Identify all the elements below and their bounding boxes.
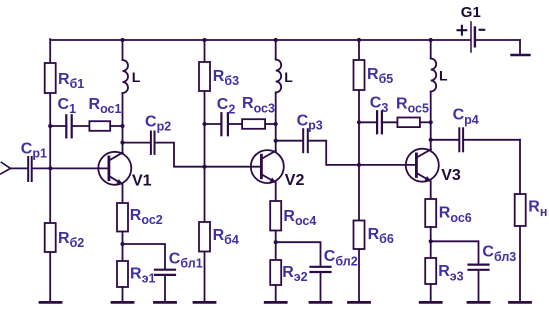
svg-text:Rос5: Rос5 [396,95,429,115]
wire C&#1073;л2 to ground [320,273,322,301]
wire top supply rail left section [50,39,470,41]
svg-text:Rн: Rн [528,199,547,219]
capacitor C1 [58,96,77,138]
node stage1 collector Cp2 tap [120,141,124,145]
ground (C&#1073;л1) [155,301,176,304]
svg-text:Rб3: Rб3 [213,68,239,88]
wire V2 emitter lead [275,183,277,202]
wire feedback row to C2 [205,123,221,125]
inductor L (stage1) [123,40,141,126]
node stage3 emitter junction [429,239,433,243]
resistor Roc1 [89,96,122,131]
resistor Roc2 [117,203,163,232]
svg-text:Rос4: Rос4 [283,208,316,228]
node stage2 feedback row left [202,122,206,126]
node stage1 rail junction [120,38,124,42]
wire V1 base lead [50,167,109,169]
wire feedback row to C1 [50,125,65,127]
wire battery to ground [519,40,521,54]
svg-text:Rб1: Rб1 [58,71,84,91]
resistor R&#1073;2 [45,223,85,252]
capacitor C&#1073;л3 [469,244,517,270]
transistor V3 [406,149,461,185]
node stage2 rail junction [274,38,278,42]
ground (R&#1073;4) [194,301,215,304]
wire feedback row to C3 [359,121,376,123]
wire Roc3 to collector column [265,123,276,125]
wire Roc6 to Rэ3 [430,227,432,258]
node stage3 collector Cp4 tap [429,138,433,142]
svg-text:Rос2: Rос2 [130,207,163,227]
wire C2 to Roc3 [229,123,242,125]
node stage2 base junction [202,165,206,169]
svg-text:V1: V1 [132,172,152,189]
wire stage2 bias column [204,40,206,301]
resistor R&#1073;5 [354,60,394,90]
svg-text:L: L [132,69,141,85]
capacitor C&#1073;л1 [155,250,203,275]
resistor Rэ1 [117,261,155,287]
wire C&#1073;л3 to ground [478,271,480,301]
wire Roc2 to Rэ1 [122,232,124,262]
wire C3 to Roc5 [383,121,397,123]
wire emitter to C&#1073;л1 [123,244,166,268]
node stage3 feedback row left [357,120,361,124]
svg-text:Rэ3: Rэ3 [438,263,463,283]
resistor Roc3 [242,95,275,129]
resistor R&#1073;4 [199,222,239,252]
wire emitter to C&#1073;л2 [276,242,321,265]
G1 battery [461,4,481,52]
wire Roc4 to Rэ2 [275,231,277,261]
node stage3 feedback row right [429,120,433,124]
svg-text:L: L [439,68,448,84]
capacitor Cp2 [145,114,171,154]
node stage1 emitter junction [120,242,124,246]
svg-text:C1: C1 [58,96,77,116]
resistor Roc4 [270,201,316,231]
battery plus sign [458,26,467,35]
ground (R&#1073;6) [349,301,370,304]
capacitor C3 [370,95,389,134]
capacitor Cp3 [297,113,323,153]
wire to Cp4 [431,139,459,141]
wire stage1 collector column [122,126,124,153]
wire Rэ1 to ground [122,287,124,301]
wire stage2 collector column [275,124,277,151]
svg-text:Rос1: Rос1 [89,96,122,116]
wire Rэ2 to ground [275,285,277,301]
ground (battery) [512,54,530,57]
ground (Rэ1) [112,301,133,304]
wire Cp3 to V3 base [309,141,416,165]
svg-text:Rб4: Rб4 [213,227,239,247]
resistor R&#1073;6 [354,221,394,250]
wire stage3 bias column [358,40,360,301]
ground (R&#1085;) [510,301,531,304]
wire V1 emitter lead [122,184,124,203]
svg-text:Cр3: Cр3 [297,113,323,133]
input arrow [1,162,11,174]
wire top supply rail right section [476,39,520,41]
svg-text:Cбл2: Cбл2 [324,248,358,268]
wire Rэ3 to ground [430,284,432,301]
svg-text:Rэ2: Rэ2 [282,264,307,284]
node stage2 collector Cp3 tap [274,139,278,143]
inductor L (stage3) [431,40,448,122]
ground (Rэ2) [265,301,286,304]
svg-text:Cбл1: Cбл1 [169,250,203,270]
node stage3 rail bias junction [357,38,361,42]
resistor Roc5 [396,95,429,127]
capacitor Cp1 [21,140,47,181]
svg-text:Cр4: Cр4 [453,107,479,127]
wire Roc1 to collector column [110,125,122,127]
svg-text:L: L [284,69,293,85]
wire stage1 bias column [49,39,51,301]
svg-text:Rб5: Rб5 [367,66,393,86]
resistor Roc6 [425,199,472,227]
inductor L (stage2) [276,40,294,124]
svg-text:C3: C3 [370,95,389,115]
svg-text:Cбл3: Cбл3 [482,244,516,264]
wire input to Cp1 [10,167,27,169]
svg-text:Rос6: Rос6 [439,205,472,225]
wire to Cp3 [276,140,302,142]
ground (C&#1073;л3) [468,301,489,304]
svg-text:Rос3: Rос3 [242,95,275,115]
node stage3 base junction [357,163,361,167]
wire to Cp2 [123,142,150,144]
transistor V2 [251,150,305,189]
capacitor C&#1073;л2 [311,248,358,272]
transistor V1 [98,152,151,190]
wire Cp1 to base node [33,167,51,169]
node stage3 rail junction [429,38,433,42]
wire Roc5 to collector column [420,121,431,123]
wire stage3 collector column [430,122,432,149]
wire C&#1073;л1 to ground [164,276,166,301]
resistor Rэ3 [425,258,463,284]
resistor R&#1073;3 [199,62,239,91]
svg-text:V2: V2 [285,172,305,189]
node stage1 feedback row right [120,124,124,128]
wire V3 emitter lead [430,181,432,199]
wire emitter to C&#1073;л3 [431,241,479,263]
node stage1 feedback row left [48,124,52,128]
resistor R&#1073;1 [45,63,85,93]
node stage2 emitter junction [274,240,278,244]
capacitor Cp4 [453,107,479,152]
battery minus sign [480,29,485,31]
svg-text:C2: C2 [217,96,236,116]
capacitor C2 [217,96,236,135]
svg-text:V3: V3 [441,167,461,184]
svg-text:Cр1: Cр1 [21,140,47,160]
ground (Rэ3) [420,301,441,304]
svg-text:Rб6: Rб6 [368,226,394,246]
resistor R&#1085; load [515,194,548,226]
ground (R&#1073;2) [40,301,61,304]
resistor Rэ2 [270,260,307,285]
node stage2 rail bias junction [202,38,206,42]
wire C1 to Roc1 [73,125,90,127]
node stage1 base bias junction [48,166,52,170]
svg-text:G1: G1 [461,4,481,21]
wire Cp4 to load [464,139,520,141]
svg-text:Cр2: Cр2 [145,114,171,134]
ground (C&#1073;л2) [310,301,331,304]
svg-text:Rб2: Rб2 [58,230,84,250]
wire Cp2 to V2 base [156,143,262,167]
svg-text:Rэ1: Rэ1 [130,265,155,285]
wire load column [519,140,521,301]
node stage2 feedback row right [274,122,278,126]
